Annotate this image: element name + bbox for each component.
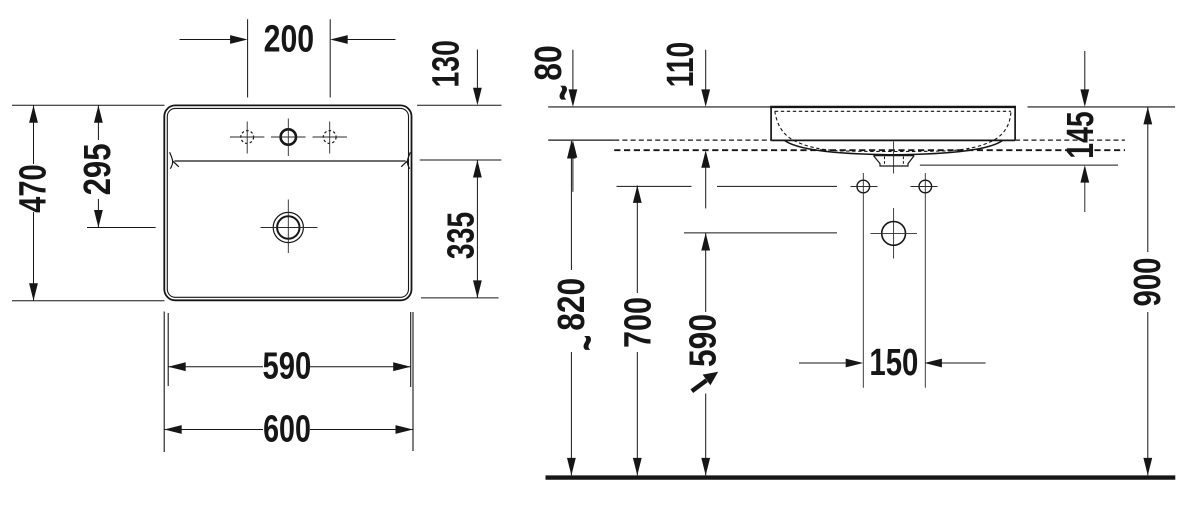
sink top extension line (right) [417,104,502,106]
drain fitting hidden edges [885,157,904,166]
svg-text:590: 590 [683,314,725,367]
basin top reference line (right of basin) [1028,106,1176,108]
dimension 590 line [168,366,411,368]
countertop underside line (dashed) [614,149,1125,151]
svg-text:470: 470 [13,164,55,213]
svg-text:335: 335 [441,212,483,260]
centreline through drain [893,142,895,259]
left fixing hole [857,180,870,193]
svg-text:600: 600 [263,409,311,451]
dimension 590 extension line left [167,313,169,386]
dimension 700 line [636,185,638,475]
dimension 600 line [164,429,413,431]
svg-text:80: 80 [528,45,570,81]
dimension 600 extension line right [412,312,414,451]
dimension 470 line [33,105,35,301]
dimension ~820 line [570,141,572,475]
countertop surface line (dashed, right of basin) [1015,139,1125,141]
basin top edge (front view, bold) [770,106,1016,108]
drain outer circle (plan) [273,212,303,242]
fixing holes level extension line [617,185,838,187]
svg-text:~: ~ [537,85,590,101]
basin outer belly curve [785,140,1003,154]
dimension 110 lower arrow [705,166,707,208]
dimension 900 line [1147,107,1149,476]
adjustable-height arrow symbol [692,372,718,391]
drain crosshair [261,200,318,254]
basin inner bowl dashed profile [775,111,1011,151]
dimension 590 (front) line [705,233,707,475]
dimension 200 leader left [180,39,233,41]
svg-text:700: 700 [618,297,660,348]
dimension 600 extension line left [163,312,165,453]
svg-text:295: 295 [77,143,119,195]
left top extension line [12,104,165,106]
centre faucet hole [281,129,296,144]
dimension ~80 upper arrow [572,50,574,91]
basin inner rim (plan) [167,108,408,297]
svg-text:145: 145 [1060,111,1102,159]
svg-text:200: 200 [264,19,315,61]
countertop surface line (dashed, left of basin) [614,139,771,141]
bowl edge left hook [170,152,179,168]
basin inner rim dashed line [775,110,1011,112]
drain fitting (front view) [874,156,915,166]
svg-text:130: 130 [426,40,468,88]
waste hole crosshair [871,232,918,234]
left fixing hole extension line down [862,173,864,388]
svg-text:~: ~ [561,335,614,351]
right fixing hole extension line down [924,173,926,388]
left bottom extension line [12,300,165,302]
svg-text:820: 820 [551,278,593,331]
waste hole circle [882,222,906,246]
right fixing hole [919,180,932,193]
dimension ~80 lower arrow [572,156,574,192]
dimension 335 line [476,160,478,298]
svg-text:110: 110 [660,42,702,88]
dimension 145 lower arrow [1084,181,1086,212]
basin underside extension line [920,164,1118,166]
dimension 110 upper arrow [705,50,707,91]
right fixing hole crosshair [911,186,938,188]
countertop surface line (solid part) [548,139,614,141]
dimension 200 leader right [346,39,396,41]
dimension 130 line with down arrow [476,50,478,91]
basin bowl front edge line (plan) [174,160,405,162]
dimension 150 leader left [799,362,848,364]
sink bottom extension line (right) [421,297,499,299]
svg-text:150: 150 [869,342,918,384]
bowl edge right hook [401,152,410,168]
bowl edge extension line (right) [420,159,502,161]
dimension 150 leader right [941,362,986,364]
basin top reference line (left of basin) [548,106,771,108]
dimension 145 upper arrow [1084,51,1086,91]
basin outer rim (plan) [164,105,411,300]
floor line [546,475,1176,479]
left faucet hole crosshair [230,122,264,154]
dimension 200 extension lines [248,19,331,97]
dimension 295 line [97,105,99,227]
left fixing hole crosshair [851,186,878,188]
left faucet hole (dashed) [241,131,254,144]
right faucet hole crosshair [313,122,347,154]
centre faucet hole crosshair [271,119,306,157]
dimension 590 extension line right [410,312,412,387]
drain inner circle (plan) [277,216,299,238]
svg-text:900: 900 [1127,258,1169,307]
svg-text:590: 590 [263,346,312,388]
basin body (front view) [771,107,1015,140]
right faucet hole (dashed) [323,131,336,144]
drain level extension line [684,232,837,234]
drain centre extension line (left) [87,227,156,229]
